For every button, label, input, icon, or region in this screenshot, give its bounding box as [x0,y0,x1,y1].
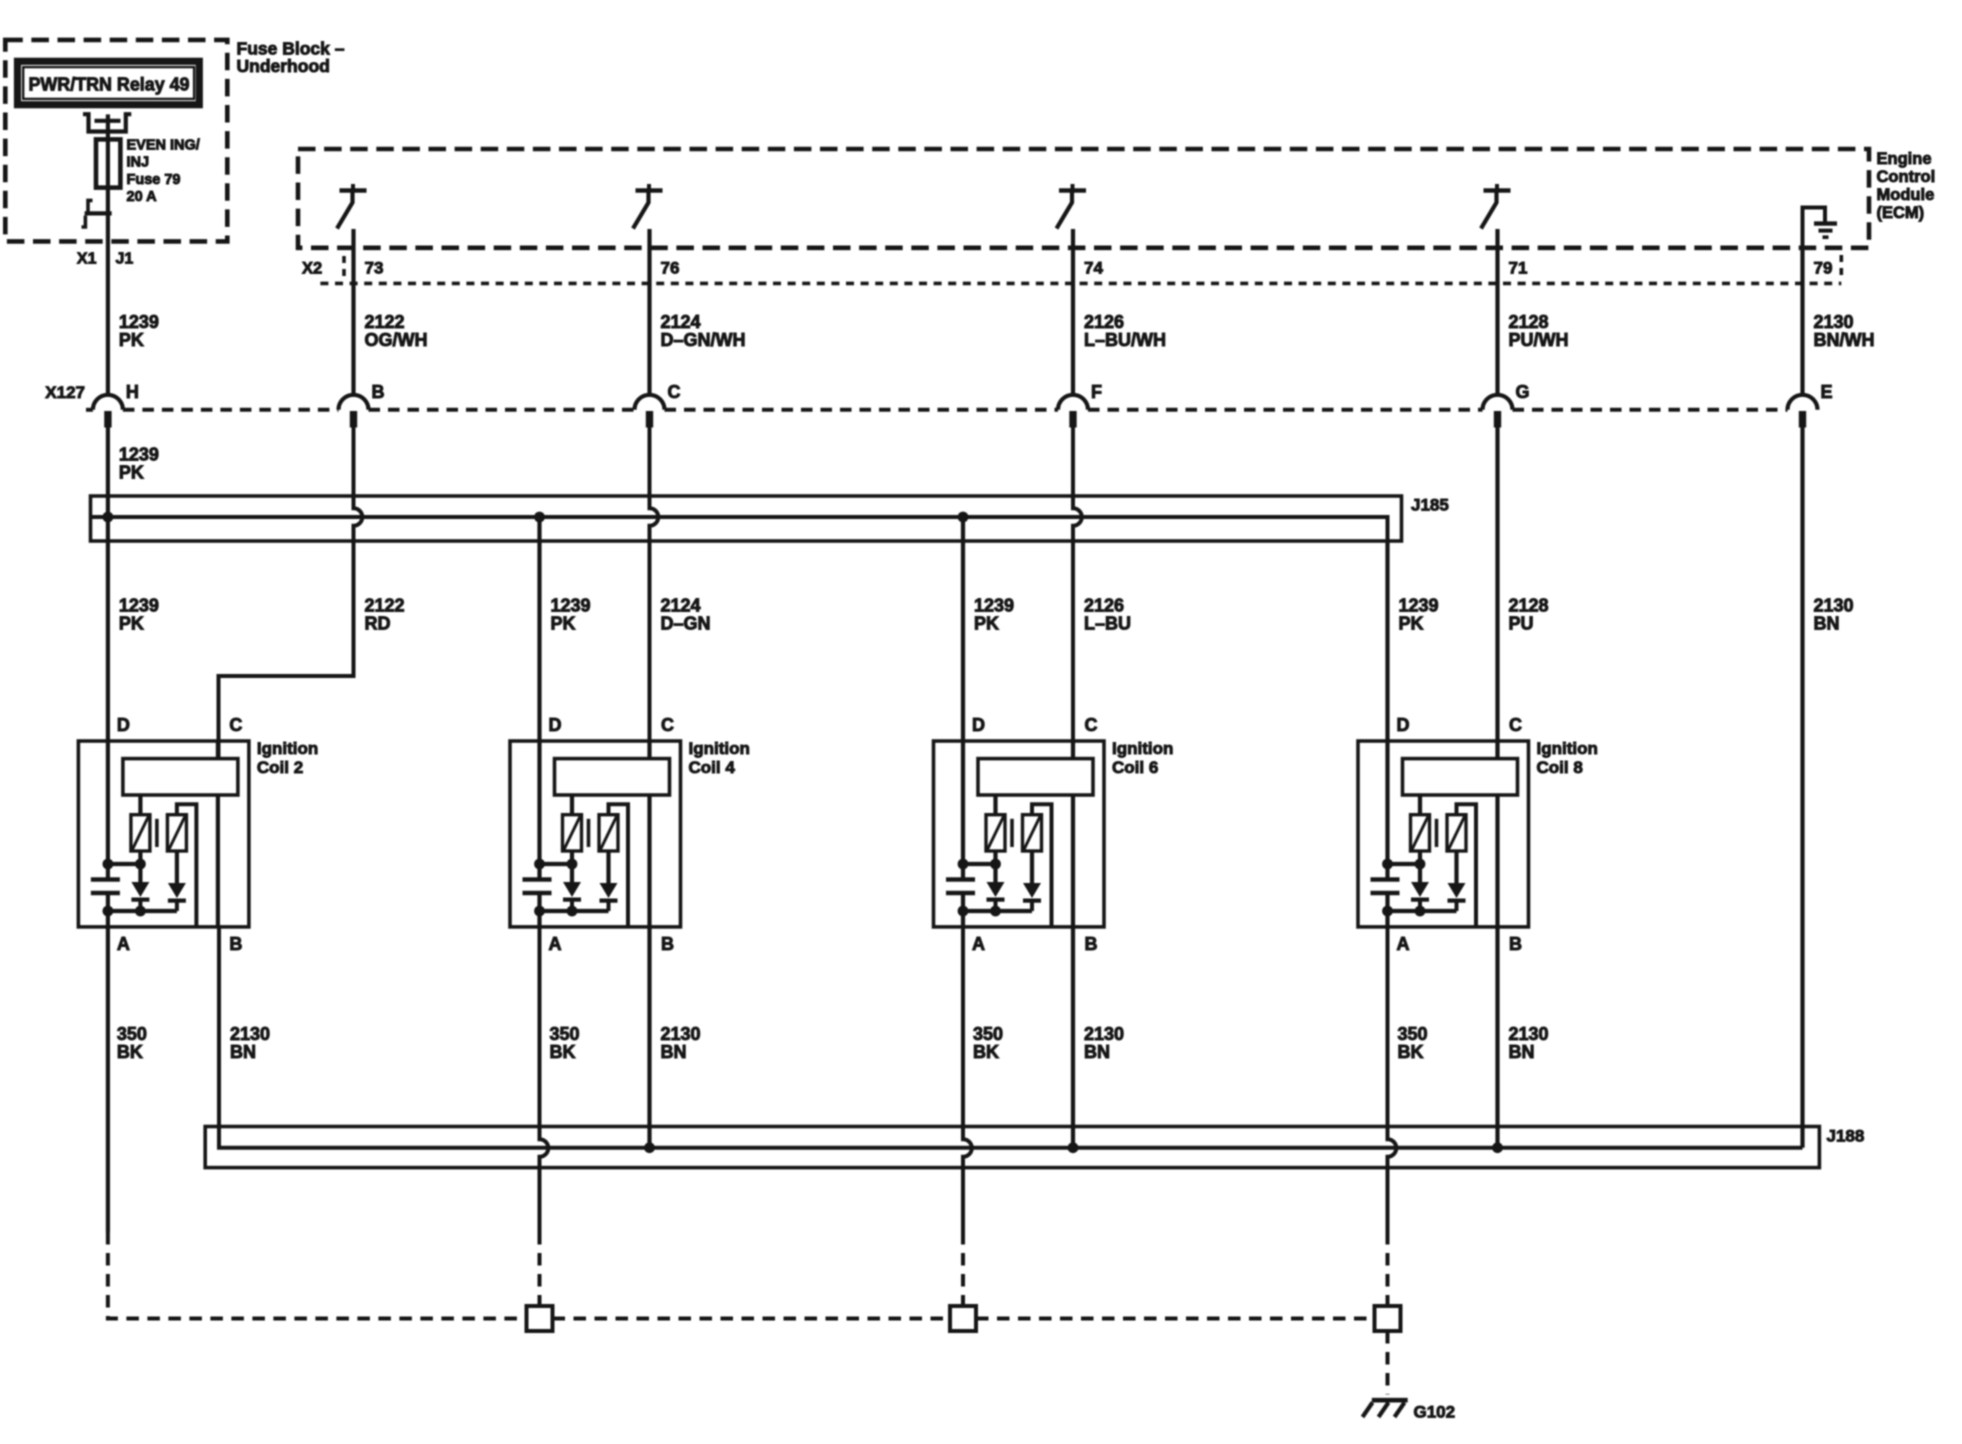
coil 6 primary winding [986,815,1005,851]
coil 2 diode 2 [168,883,186,911]
svg-text:BN/WH: BN/WH [1814,330,1875,350]
ECM internal ground for pin 79 [1803,208,1838,248]
coil 8 wire: secondary winding to diode 2 [1454,851,1458,883]
label: Ignition Coil 6 [1112,739,1173,777]
value label: EVEN ING/INJ Fuse 79 20 A [127,138,200,206]
svg-text:2130: 2130 [1814,596,1854,616]
coil 6 wire: pin C into module [1071,741,1075,759]
svg-text:B: B [372,382,385,402]
coil 2 wire: capacitor to pin A [106,893,110,927]
wire: coil 2 pin B to J188 bus start (2130 BN) + J188 bus + riser to X127 E [219,927,1803,1148]
svg-text:BN: BN [1509,1042,1535,1062]
svg-text:F: F [1091,382,1102,402]
svg-text:Control: Control [1877,168,1936,186]
wire: ECM driver to X127 (circuit 2128 PU/WH) [1495,229,1499,396]
wire: relay through fuse F79 down to connector X127 pin H (circuit 1239 PK) [106,121,110,396]
coil 8 wire: pin D down to capacitor [1385,741,1389,880]
svg-text:B: B [661,934,674,954]
coil 4 wire: pin C into module [647,741,651,759]
svg-text:X1: X1 [77,251,97,268]
svg-text:PK: PK [119,463,144,483]
label: Engine Control Module (ECM) [1877,150,1936,222]
svg-text:350: 350 [117,1024,147,1044]
svg-text:74: 74 [1084,259,1103,278]
svg-text:L–BU: L–BU [1084,614,1131,634]
svg-text:PK: PK [974,614,999,634]
svg-text:1239: 1239 [1399,596,1439,616]
ECM coil driver (output pin 74) [1057,184,1087,229]
svg-text:PK: PK [119,614,144,634]
splice pack J185 bus bar (1239 PK feed, corners down to coil 8) [91,517,1388,543]
wire: coil 4 pin A down, hop over J188 bus (350 BK) [540,927,549,1232]
svg-text:INJ: INJ [127,155,150,171]
coil 8 wire: module to primary winding [1418,795,1422,815]
splice pack J188 (enclosure) [205,1127,1819,1168]
svg-text:PK: PK [1399,614,1424,634]
junction on J188 bus [644,1142,655,1153]
svg-text:D–GN/WH: D–GN/WH [661,330,746,350]
svg-text:1239: 1239 [119,312,159,332]
wire: coil 6 pin A down, hop over J188 bus (350 BK) [963,927,972,1232]
coil 8 wire: capacitor to pin A [1385,893,1389,927]
ignition coil 2 (case) [78,741,249,927]
coil 4 capacitor [523,880,552,894]
coil 4 diode 2 [600,883,618,911]
svg-text:C: C [229,715,242,735]
ignition coil 4 (case) [510,741,681,927]
wire: coil 4 pin B to J188 bus (2130 BN) [647,927,651,1148]
coil 4 wire: secondary winding to diode 2 [606,851,610,883]
svg-text:2130: 2130 [230,1024,270,1044]
svg-text:C: C [661,715,674,735]
coil 8 secondary winding [1447,815,1466,851]
svg-text:BK: BK [973,1042,999,1062]
svg-text:J185: J185 [1411,496,1449,515]
svg-text:350: 350 [1398,1024,1428,1044]
in-line ground connector (coil 8 branch) [1375,1306,1401,1331]
svg-text:2130: 2130 [661,1024,701,1044]
coil 4 primary winding [563,815,582,851]
svg-text:D–GN: D–GN [661,614,711,634]
coil 4 secondary winding [599,815,618,851]
wire: coil 8 pin B to J188 bus (2130 BN) [1495,927,1499,1148]
coil 2 wire: secondary winding to diode 2 [175,851,179,883]
wire: ECM driver to X127 (circuit 2122 OG/WH) [351,229,355,396]
svg-text:71: 71 [1509,259,1528,278]
ignition coil 8 (case) [1358,741,1529,927]
svg-text:C: C [668,382,681,402]
coil 2 wire: pin D down to capacitor [106,741,110,880]
coil 6 wire: primary winding to diode 1 [993,851,997,882]
wire: ECM driver to X127 (circuit 2124 D-GN/WH) [647,229,651,396]
coil 4 secondary output to spark tower [609,804,629,927]
wire: coil 4 ground dashed drop [538,1232,542,1306]
svg-text:PU/WH: PU/WH [1509,330,1569,350]
coil 8 secondary output to spark tower [1457,804,1477,927]
svg-text:2126: 2126 [1084,596,1124,616]
wire: coil 2 pin A down left side (350 BK) [106,927,110,1232]
svg-text:J188: J188 [1827,1127,1865,1146]
coil 2 primary winding [131,815,150,851]
junction on J185 bus [534,512,545,523]
svg-text:Ignition: Ignition [1112,739,1173,758]
svg-text:PWR/TRN Relay 49: PWR/TRN Relay 49 [29,73,190,94]
wire: J185 bus to coil 4 pin D (1239 PK) [537,517,541,741]
svg-text:A: A [549,934,562,954]
svg-text:Ignition: Ignition [1537,739,1598,758]
coil 6 wire: module to primary winding [993,795,997,815]
wire: coil 8 pin A down, hop over J188 bus (350 BK) [1388,927,1397,1232]
coil 6 diode 2 [1023,883,1041,911]
svg-text:D: D [1397,715,1410,735]
svg-text:BN: BN [230,1042,256,1062]
coil 2 core [155,819,159,847]
wire: dashed drop to ground G102 [1386,1331,1390,1395]
fuse-block lower terminal pair [82,200,112,227]
svg-text:EVEN ING/: EVEN ING/ [127,138,200,154]
svg-text:2126: 2126 [1084,312,1124,332]
svg-text:BN: BN [1084,1042,1110,1062]
coil 2 wire: primary winding to diode 1 [138,851,142,882]
svg-text:OG/WH: OG/WH [365,330,428,350]
coil 4 wire: primary winding to diode 1 [570,851,574,882]
coil 4 wire: module to primary winding [570,795,574,815]
coil 8 capacitor [1371,880,1400,894]
coil 4 diode 1 [563,882,581,911]
connector X127 terminal H (arc + pin) [93,382,139,428]
svg-text:G102: G102 [1414,1403,1456,1422]
coil 4 ground return bus (capacitor/diodes to pin A) [540,909,609,913]
svg-text:E: E [1821,382,1833,402]
coil 2 secondary output to spark tower [177,804,197,927]
svg-text:A: A [1397,934,1410,954]
svg-text:C: C [1509,715,1522,735]
wire (unlabeled harness): coil 2 ground run, dashed to splice corner [108,1232,527,1319]
svg-text:BK: BK [117,1042,143,1062]
svg-text:350: 350 [973,1024,1003,1044]
ECM coil driver (output pin 71) [1481,184,1511,229]
coil 8 diode 1 [1411,882,1429,911]
splice pack J185 (enclosure) [91,496,1402,541]
Fuse Block - Underhood dashed enclosure [5,40,227,242]
coil 4 junction link (D to primary return) [540,862,573,866]
wire: dashed ground bus, coil 6 to coil 8 [976,1317,1375,1321]
coil 8 wire: pin C into module [1495,741,1499,759]
wire: X127 B down, hop over J185 bus, jog left to coil 2 pin C (2122 RD) [219,428,363,759]
coil 2 diode 1 [131,882,149,911]
wire: dashed ground bus, coil 4 to coil 6 [553,1317,951,1321]
svg-text:(ECM): (ECM) [1877,204,1925,222]
coil 6 wire: pin D down to capacitor [961,741,965,880]
svg-text:2122: 2122 [365,312,405,332]
svg-text:350: 350 [550,1024,580,1044]
coil 6 wire: secondary winding to diode 2 [1030,851,1034,883]
node X1 / J1 (fuse block connector labels) [77,251,133,268]
connector X127 (in-line connector, dashed line) [45,383,1787,410]
coil 6 junction link (D to primary return) [963,862,996,866]
coil 6 secondary output to spark tower [1032,804,1052,927]
svg-text:Module: Module [1877,186,1935,204]
coil 6 secondary winding [1023,815,1042,851]
in-line ground connector (coil 6 branch) [950,1306,976,1331]
coil 4 wire: capacitor to pin A [537,893,541,927]
svg-text:2128: 2128 [1509,312,1549,332]
coil 8 diode 2 [1448,883,1466,911]
svg-text:Coil 4: Coil 4 [689,758,736,777]
coil 2 secondary winding [167,815,186,851]
svg-text:PK: PK [119,330,144,350]
ground G102 [1363,1400,1408,1417]
wire: X127 C down, hop over J185 bus, to coil 4 pin C (2124 D-GN) [650,428,659,759]
svg-text:B: B [1085,934,1098,954]
svg-text:2130: 2130 [1814,312,1854,332]
coil 6 diode 1 [987,882,1005,911]
label: Fuse Block - Underhood [237,39,345,77]
svg-text:2130: 2130 [1509,1024,1549,1044]
svg-text:Engine: Engine [1877,150,1932,168]
wire: X127 E down right side to J188 bus (2130 BN) [1800,428,1804,1148]
coil 6 capacitor [946,880,975,894]
coil 6 core [1010,819,1014,847]
junction on J185 bus [958,512,969,523]
svg-text:L–BU/WH: L–BU/WH [1084,330,1166,350]
svg-text:B: B [229,934,242,954]
coil 2 wire: module to primary winding [138,795,142,815]
wire: ECM driver to X127 (circuit 2126 L-BU/WH) [1071,229,1075,396]
svg-text:2124: 2124 [661,596,701,616]
svg-text:B: B [1509,934,1522,954]
svg-text:1239: 1239 [119,445,159,465]
svg-text:PU: PU [1509,614,1534,634]
svg-text:D: D [972,715,985,735]
coil 8 wire: primary winding to diode 1 [1418,851,1422,882]
relay output terminal (staple + crossbar) [83,114,131,131]
connector X127 terminal G (arc + pin) [1483,382,1530,428]
ECM coil driver (output pin 73) [337,184,367,229]
Engine Control Module (ECM) dashed enclosure [298,149,1869,248]
connector X127 terminal B (arc + pin) [339,382,385,428]
connector X127 terminal C (arc + pin) [635,382,681,428]
coil 4 core [587,819,591,847]
junction on J188 bus [1068,1142,1079,1153]
svg-text:Coil 2: Coil 2 [257,758,303,777]
wire: ECM ground pin 79 to X127 pin E (circuit 2130 BN/WH) [1800,248,1804,396]
svg-text:RD: RD [365,614,391,634]
coil 4 wire: module to pin B [647,795,651,927]
svg-text:BK: BK [1398,1042,1424,1062]
coil 2 junction link (D to primary return) [108,862,140,866]
svg-text:1239: 1239 [119,596,159,616]
connector X127 terminal E (arc + pin) [1788,382,1833,428]
svg-text:X127: X127 [45,383,85,402]
coil 4 driver module [555,759,670,795]
svg-text:A: A [972,934,985,954]
label: Ignition Coil 4 [689,739,750,777]
coil 6 ground return bus (capacitor/diodes to pin A) [963,909,1032,913]
svg-text:1239: 1239 [551,596,591,616]
ECM coil driver (output pin 76) [633,184,663,229]
svg-text:D: D [549,715,562,735]
coil 6 wire: capacitor to pin A [961,893,965,927]
svg-text:G: G [1516,382,1530,402]
svg-text:C: C [1085,715,1098,735]
connector X2 (ECM harness connector, dotted line) [302,255,1841,283]
label: Ignition Coil 2 [257,739,318,777]
wire: X127 F down, hop over J185 bus, to coil 6 pin C (2126 L-BU) [1073,428,1082,759]
wire: J185 bus corner down to coil 8 pin D (1239 PK) [1385,541,1389,741]
connector X127 terminal F (arc + pin) [1058,382,1102,428]
svg-text:D: D [117,715,130,735]
coil 8 driver module [1403,759,1518,795]
coil 4 wire: pin D down to capacitor [537,741,541,880]
svg-text:76: 76 [661,259,680,278]
wire: coil 6 pin B to J188 bus (2130 BN) [1071,927,1075,1148]
svg-text:20 A: 20 A [127,189,158,205]
coil 8 wire: module to pin B [1495,795,1499,927]
wire: X127 G to coil 8 pin C (2128 PU) [1495,428,1499,759]
svg-text:Coil 6: Coil 6 [1112,758,1158,777]
svg-text:73: 73 [365,259,384,278]
svg-text:Coil 8: Coil 8 [1537,758,1583,777]
label: Ignition Coil 8 [1537,739,1598,777]
svg-text:79: 79 [1814,259,1833,278]
svg-text:H: H [126,382,139,402]
wire: coil 8 ground dashed drop [1386,1232,1390,1306]
junction on J185 bus [103,512,114,523]
coil 2 wire: module to pin B [216,795,220,927]
fuse F79: EVEN ING/INJ Fuse 79 20 A [96,139,120,187]
ignition coil 6 (case) [934,741,1105,927]
svg-text:Ignition: Ignition [257,739,318,758]
in-line ground connector (coil 4 branch) [527,1306,553,1331]
coil 2 capacitor [91,880,120,894]
svg-text:BN: BN [661,1042,687,1062]
coil 8 primary winding [1411,815,1430,851]
wire: J185 bus to coil 6 pin D (1239 PK) [961,517,965,741]
svg-text:J1: J1 [116,251,134,268]
svg-text:2122: 2122 [365,596,405,616]
junction on J188 bus [1492,1142,1503,1153]
svg-text:BN: BN [1814,614,1840,634]
svg-text:PK: PK [551,614,576,634]
wire: coil 6 ground dashed drop [961,1232,965,1306]
svg-text:Underhood: Underhood [237,56,330,76]
wire: X127 H to coil 2 pin D (1239 PK), crosses J185 with junction [106,428,110,742]
svg-text:Fuse 79: Fuse 79 [127,172,181,188]
coil 2 ground return bus (capacitor/diodes to pin A) [108,909,177,913]
svg-text:1239: 1239 [974,596,1014,616]
svg-text:2128: 2128 [1509,596,1549,616]
svg-text:Ignition: Ignition [689,739,750,758]
svg-text:2130: 2130 [1084,1024,1124,1044]
coil 8 junction link (D to primary return) [1388,862,1421,866]
svg-text:2124: 2124 [661,312,701,332]
coil 8 ground return bus (capacitor/diodes to pin A) [1388,909,1457,913]
coil 2 driver module [123,759,238,795]
svg-text:BK: BK [550,1042,576,1062]
coil 6 driver module [978,759,1093,795]
svg-text:X2: X2 [302,260,322,278]
coil 8 core [1435,819,1439,847]
coil 2 wire: pin C into module [216,741,220,759]
coil 6 wire: module to pin B [1071,795,1075,927]
relay K: PWR/TRN Relay 49 (double-border box) [18,61,200,104]
svg-text:A: A [117,934,130,954]
